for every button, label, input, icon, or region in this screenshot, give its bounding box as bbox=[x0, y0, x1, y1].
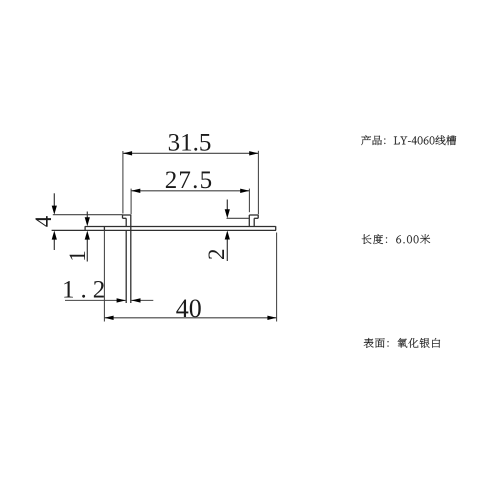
dim 1 lower arrow head bbox=[85, 231, 90, 240]
dim 2 top reference line bbox=[227, 217, 250, 219]
svg-text:27.5: 27.5 bbox=[165, 167, 214, 194]
dim 1.2 leader line left bbox=[65, 299, 126, 301]
dim 1.2 arrow right-pointing bbox=[117, 298, 126, 302]
svg-text:4: 4 bbox=[31, 215, 56, 227]
profile web top edge bbox=[85, 226, 276, 228]
label line 1: 产品：LY-4060线槽 bbox=[361, 135, 456, 145]
dim 1.2 arrow left-pointing bbox=[131, 298, 140, 302]
left lip top edge bbox=[123, 214, 131, 216]
dim 27.5 arrow right bbox=[240, 189, 249, 193]
dim 40 extension line left bbox=[103, 230, 105, 321]
profile web joint line bbox=[103, 226, 105, 230]
left lip hook bottom bbox=[123, 217, 127, 219]
dim 4 upper arrow head bbox=[52, 206, 57, 215]
dim 4 lower arrow head bbox=[52, 231, 57, 240]
left lip hook inner edge bbox=[125, 218, 127, 226]
dim 31.5 extension line left bbox=[122, 151, 124, 214]
dim 31.5 extension line right bbox=[257, 151, 259, 214]
dim 31.5 arrow left bbox=[123, 151, 132, 155]
dim 1.2 leader line right bbox=[131, 299, 153, 301]
dim 1 upper arrow shaft bbox=[86, 212, 88, 221]
profile web left end cap bbox=[84, 226, 86, 230]
dim 27.5 extension line right bbox=[248, 189, 250, 213]
right lip hook bottom bbox=[254, 217, 258, 219]
dim 1 lower arrow shaft bbox=[86, 237, 88, 262]
label line 2: 长度：6.00米 bbox=[362, 234, 430, 244]
dim 2 lower arrow shaft bbox=[226, 237, 228, 262]
left lip outer hook edge bbox=[122, 215, 124, 219]
svg-text:1: 1 bbox=[65, 250, 90, 262]
dim 31.5 line bbox=[123, 152, 259, 154]
dim 27.5 line bbox=[131, 190, 249, 192]
left lip right edge / leg right edge bbox=[130, 215, 132, 303]
dim 40 arrow left bbox=[104, 316, 113, 320]
dim 4 top reference line bbox=[53, 214, 123, 216]
dim 1 upper arrow head bbox=[85, 217, 90, 226]
dim 40 extension line right bbox=[276, 233, 278, 322]
dim 31.5 arrow right bbox=[249, 151, 258, 155]
dim 2 upper arrow shaft bbox=[226, 200, 228, 212]
dim 40 line bbox=[104, 317, 276, 319]
right lip left edge bbox=[248, 215, 250, 227]
right lip outer hook edge bbox=[257, 215, 259, 219]
right lip top edge bbox=[249, 214, 258, 216]
dim 27.5 arrow left bbox=[131, 189, 140, 193]
right lip hook inner edge bbox=[253, 218, 255, 226]
dim 40 arrow right bbox=[267, 316, 276, 320]
svg-text:31.5: 31.5 bbox=[168, 130, 212, 157]
dim 4 lower arrow shaft bbox=[53, 237, 55, 251]
label line 3: 表面：氧化银白 bbox=[364, 338, 440, 348]
svg-text:40: 40 bbox=[176, 294, 202, 323]
dim 2 upper arrow head bbox=[225, 209, 230, 218]
dim 27.5 extension line left bbox=[130, 189, 132, 215]
profile web right end cap bbox=[275, 226, 277, 230]
left leg left edge bbox=[125, 230, 127, 303]
dim 4 upper arrow shaft bbox=[53, 193, 55, 208]
svg-text:2: 2 bbox=[204, 248, 229, 260]
dim 2 lower arrow head bbox=[225, 231, 230, 240]
profile web bottom edge (extended left as extension line) bbox=[52, 229, 276, 231]
svg-text:1.2: 1.2 bbox=[62, 277, 111, 304]
